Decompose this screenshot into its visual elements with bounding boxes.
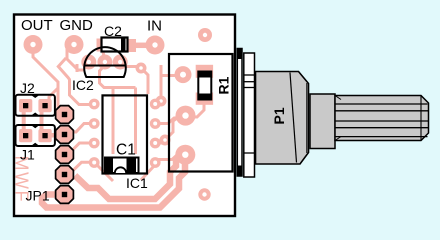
pad OUT: [24, 35, 43, 54]
svg-text:IC1: IC1: [126, 175, 148, 191]
wire via A to IC1 pin8: [141, 68, 148, 94]
connector J2: [16, 95, 55, 116]
board PCB outline: [14, 15, 235, 217]
svg-text:JP1: JP1: [26, 188, 50, 204]
wire GND pad to IC2 pad1: [67, 49, 85, 70]
wire branch to J2 pad2: [49, 88, 58, 100]
connector JP1 octagon pad 4: [56, 166, 74, 184]
potentiometer P1 washer2: [244, 53, 255, 177]
via B: [156, 96, 167, 107]
pad P1 pin1: [175, 66, 192, 83]
pads IC1 pins right column: [150, 99, 161, 168]
svg-text:C2: C2: [104, 23, 122, 39]
pad R1 top: [196, 65, 213, 78]
connector JP1 octagon pad 1: [56, 106, 74, 124]
pad P1 pin3: [175, 145, 195, 165]
connector JP1 octagon pad 5: [56, 186, 74, 204]
wire C2 pad1 to IC2 pad2: [102, 48, 105, 60]
wire R1 bottom pad to P1 pad2: [188, 102, 204, 117]
svg-text:GND: GND: [60, 17, 94, 34]
via D: [160, 135, 171, 146]
connector JP1 octagon pad 3: [56, 146, 74, 164]
svg-text:OUT: OUT: [21, 17, 53, 34]
pad GND: [65, 35, 84, 54]
via F unconnected: [198, 188, 210, 200]
wire J1 pad2 to JP1 pad2: [48, 133, 58, 138]
potentiometer P1 washer1: [237, 49, 242, 177]
wire thick ground bus T1 JP1 pad5 to P1 pad3: [42, 160, 185, 208]
wire J2 pad1 to J1 pad1: [22, 110, 26, 130]
pad IC2 pin1: [81, 55, 96, 70]
wire J2 pad2 to J1 pad2: [40, 110, 44, 130]
wire IC2 pad1 down to IC1 pad1: [58, 58, 90, 105]
wire via B chain: [156, 76, 161, 105]
pad IC2 pin2: [97, 55, 112, 70]
capacitor C1: [105, 158, 139, 174]
wire OUT pad to JP1 pad1: [33, 49, 58, 108]
wire IC2 pad2 to C1 via IC1 interior: [100, 67, 136, 88]
wire IC2 pad3 to via A: [126, 65, 139, 68]
svg-text:P1: P1: [271, 107, 287, 124]
svg-text:R1: R1: [216, 76, 232, 94]
footprint outline P1: [169, 54, 233, 172]
wire thick bus T2: [75, 158, 176, 199]
wire branch down to C1 left: [112, 88, 115, 155]
wire IC1 pin4 diagonal down: [96, 164, 113, 181]
pad P1 pin2: [176, 106, 196, 126]
pad C2 right: [124, 39, 136, 52]
pad C2 left: [97, 39, 107, 52]
silkscreen IC2 TO-92: [84, 47, 126, 77]
pads IC1 pins left column: [89, 99, 100, 168]
via A: [136, 63, 147, 74]
via C: [198, 28, 212, 42]
potentiometer P1 shaft: [335, 96, 429, 141]
wire IC1 pin7 to P1 pad2: [155, 117, 182, 124]
svg-text:IN: IN: [147, 18, 162, 35]
pad R1 bottom: [196, 93, 213, 105]
connector J1: [16, 125, 55, 146]
wire JP1 pad2 to IC1 pin2: [68, 124, 94, 133]
wire JP1 pad4 to IC1 pin4: [66, 162, 94, 174]
wire IC1 pin5 diagonal down-left: [141, 166, 154, 180]
svg-text:IC2: IC2: [72, 77, 94, 93]
wire JP1 pad3 to IC1 pin3: [65, 143, 95, 155]
wire IC1 pin5 to P1 pad3: [155, 155, 181, 160]
pad IN: [146, 36, 165, 55]
wire IC1 pin6 to via D: [155, 141, 165, 143]
svg-text:J2: J2: [20, 80, 35, 96]
wire stub junction: [76, 64, 79, 72]
pad IC2 pin3: [113, 55, 128, 70]
svg-text:J1: J1: [20, 147, 35, 163]
potentiometer P1 body: [256, 72, 309, 165]
silkscreen IC1: [103, 95, 148, 173]
silkscreen C2: [102, 38, 128, 52]
resistor R1: [198, 72, 211, 100]
wire branch down to C1 right: [134, 88, 137, 155]
potentiometer P1 bushing: [310, 94, 335, 149]
wire P1 pad1 left then down via B: [161, 65, 182, 76]
wire C2 pad2 to IN pad: [133, 43, 148, 49]
svg-text:C1: C1: [116, 142, 136, 159]
wire via D to P1 pad2: [165, 116, 184, 140]
connector JP1 octagon pad 2: [56, 126, 74, 144]
